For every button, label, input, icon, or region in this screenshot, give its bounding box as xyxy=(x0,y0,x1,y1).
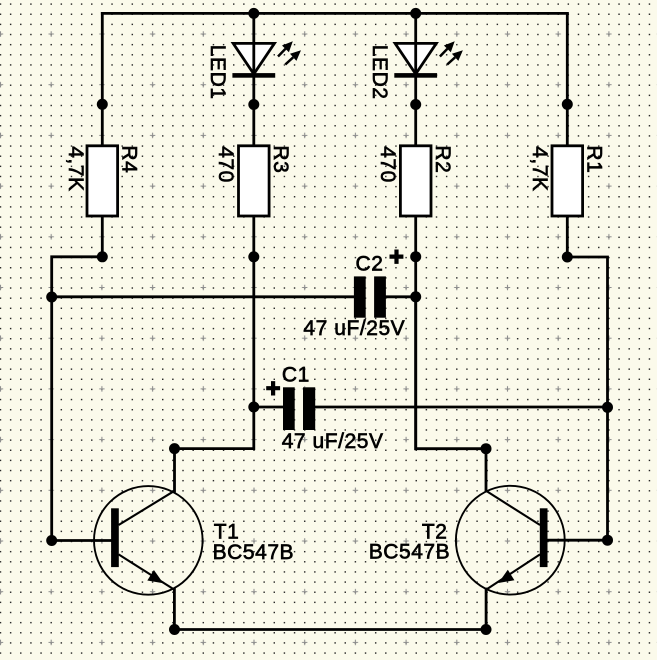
svg-text:R2: R2 xyxy=(431,145,454,173)
svg-text:C2: C2 xyxy=(356,252,384,275)
svg-text:R3: R3 xyxy=(269,145,292,173)
svg-text:47 uF/25V: 47 uF/25V xyxy=(282,430,384,453)
svg-text:LED1: LED1 xyxy=(206,45,229,100)
svg-text:T1: T1 xyxy=(214,520,240,543)
svg-text:BC547B: BC547B xyxy=(369,541,451,564)
svg-text:4,7K: 4,7K xyxy=(64,146,87,191)
svg-text:47 uF/25V: 47 uF/25V xyxy=(303,317,405,340)
svg-text:470: 470 xyxy=(376,146,399,183)
svg-text:LED2: LED2 xyxy=(368,45,391,100)
svg-text:R1: R1 xyxy=(582,145,605,173)
svg-text:C1: C1 xyxy=(282,363,310,386)
svg-text:BC547B: BC547B xyxy=(213,541,295,564)
svg-text:470: 470 xyxy=(214,146,237,183)
svg-text:4,7K: 4,7K xyxy=(528,146,551,191)
svg-text:R4: R4 xyxy=(117,145,140,173)
